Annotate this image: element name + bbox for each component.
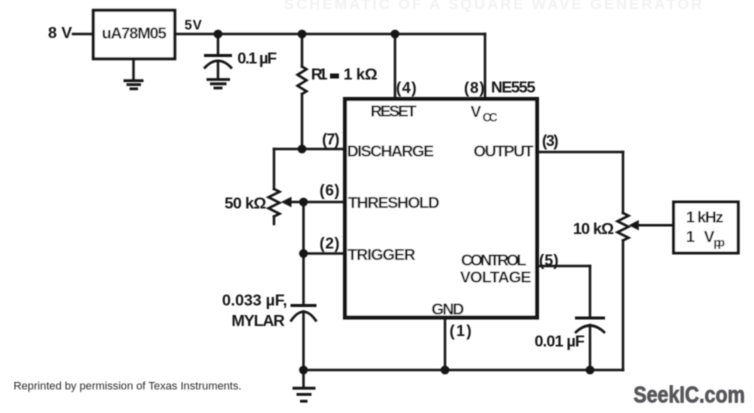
svg-text:1 kΩ: 1 kΩ [344, 67, 378, 84]
svg-text:(6): (6) [320, 183, 340, 200]
svg-text:50 kΩ: 50 kΩ [225, 196, 267, 213]
svg-text:pp: pp [714, 236, 726, 250]
svg-text:(1): (1) [450, 323, 472, 340]
svg-text:CONTROL: CONTROL [461, 253, 527, 270]
svg-text:NE555: NE555 [491, 80, 536, 97]
svg-text:RESET: RESET [371, 104, 417, 121]
svg-text:GND: GND [432, 302, 465, 319]
svg-text:SCHEMATIC OF A SQUARE WAVE GEN: SCHEMATIC OF A SQUARE WAVE GENERATOR [284, 0, 704, 13]
svg-text:uA78M05: uA78M05 [102, 26, 167, 43]
svg-text:(7): (7) [322, 132, 340, 149]
svg-text:(8): (8) [464, 80, 485, 97]
svg-text:0.033 µF,: 0.033 µF, [222, 293, 287, 310]
svg-text:VOLTAGE: VOLTAGE [460, 270, 532, 287]
svg-text:R1: R1 [311, 67, 328, 84]
svg-text:0.1 µF: 0.1 µF [237, 51, 277, 68]
svg-text:CC: CC [483, 111, 498, 125]
svg-text:(2): (2) [320, 236, 340, 253]
svg-text:MYLAR: MYLAR [232, 313, 286, 330]
svg-text:(5): (5) [539, 253, 559, 270]
svg-text:SeekIC.com: SeekIC.com [634, 382, 746, 408]
svg-text:1 V: 1 V [686, 229, 715, 246]
svg-text:(4): (4) [396, 80, 417, 97]
svg-text:THRESHOLD: THRESHOLD [348, 195, 440, 212]
svg-text:5V: 5V [185, 18, 202, 33]
svg-text:1 kHz: 1 kHz [686, 210, 724, 227]
svg-text:OUTPUT: OUTPUT [474, 144, 534, 161]
svg-text:Reprinted by permission of Tex: Reprinted by permission of Texas Instrum… [14, 381, 242, 393]
svg-text:(3): (3) [542, 133, 559, 150]
svg-text:V: V [471, 104, 482, 121]
svg-text:DISCHARGE: DISCHARGE [347, 144, 434, 161]
svg-text:8 V: 8 V [48, 25, 72, 42]
svg-text:0.01 µF: 0.01 µF [535, 334, 586, 351]
svg-text:TRIGGER: TRIGGER [348, 247, 416, 264]
svg-text:10 kΩ: 10 kΩ [573, 221, 614, 238]
